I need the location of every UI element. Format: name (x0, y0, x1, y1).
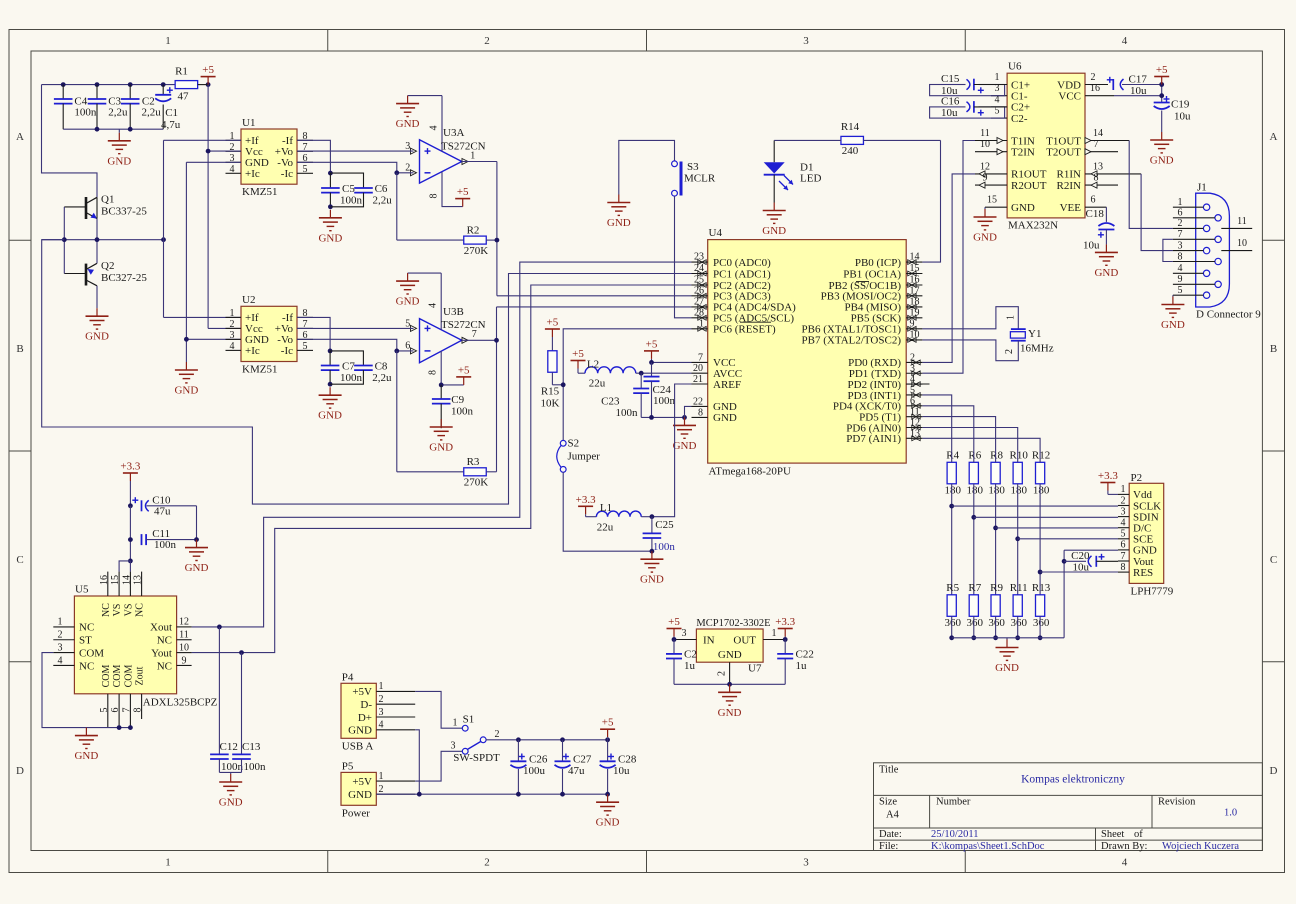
svg-text:360: 360 (988, 617, 1005, 629)
svg-text:GND: GND (396, 296, 420, 308)
IC U5 ADXL325BCPZ (53, 572, 217, 728)
svg-text:1: 1 (230, 308, 235, 319)
svg-text:PC6 (RESET): PC6 (RESET) (713, 324, 776, 336)
ground GND C25 (640, 551, 664, 586)
svg-text:+5V: +5V (352, 686, 372, 698)
wire bases to PC1 (42, 240, 692, 504)
wire R1IN to J1 (1141, 174, 1173, 251)
svg-text:7: 7 (698, 352, 703, 363)
svg-text:100n: 100n (616, 407, 639, 419)
capacitor C18 (1083, 207, 1114, 251)
wire XTAL1 to crystal (922, 307, 1018, 329)
wire C10 C11 to ground (194, 506, 199, 542)
ground GND C7 (318, 387, 342, 422)
svg-text:D Connector 9: D Connector 9 (1196, 309, 1261, 321)
svg-text:11: 11 (980, 128, 990, 139)
svg-text:T1OUT: T1OUT (1046, 135, 1081, 147)
svg-text:22: 22 (693, 396, 703, 407)
ground GND ATmega (673, 417, 697, 452)
wire T1IN to PD1 (922, 141, 975, 374)
wire PD4 to R6 (922, 406, 973, 452)
power +5 R15 (545, 317, 560, 338)
svg-text:10u: 10u (613, 765, 630, 777)
svg-text:+3.3: +3.3 (775, 616, 795, 628)
capacitor C25 (641, 514, 675, 553)
svg-text:3: 3 (58, 642, 63, 653)
wire S3 to PC5 (675, 196, 692, 318)
svg-text:L2: L2 (587, 359, 599, 371)
svg-text:15: 15 (987, 195, 997, 206)
svg-text:1: 1 (165, 35, 171, 47)
svg-text:3: 3 (1178, 240, 1183, 251)
svg-text:U1: U1 (242, 117, 255, 129)
svg-text:8: 8 (1121, 562, 1126, 573)
svg-text:C6: C6 (375, 183, 388, 195)
svg-text:-Ic: -Ic (281, 168, 293, 180)
svg-text:2: 2 (495, 729, 500, 740)
svg-text:8: 8 (1094, 173, 1099, 184)
resistor R7 360 (967, 582, 984, 629)
svg-text:23: 23 (694, 252, 704, 263)
wire R10 node (1015, 452, 1020, 595)
wire R9 to ground rail (993, 616, 998, 640)
wire tap D/C (996, 527, 1118, 529)
svg-text:U7: U7 (748, 663, 762, 675)
capacitor C24 (644, 362, 676, 417)
svg-text:C15: C15 (941, 73, 960, 85)
wire U7 ground rail (674, 682, 785, 687)
diode D1 LED (764, 140, 822, 202)
ground GND C9 (429, 419, 453, 454)
op-amp U3A TS272CN (405, 96, 485, 207)
svg-text:GND: GND (973, 232, 997, 244)
power +3.3 U5 (120, 461, 140, 482)
svg-text:4: 4 (1178, 263, 1183, 274)
svg-text:R1IN: R1IN (1057, 169, 1082, 181)
svg-text:5: 5 (1178, 285, 1183, 296)
svg-text:GND: GND (174, 385, 198, 397)
svg-text:PB1 (OC1A): PB1 (OC1A) (843, 268, 901, 280)
svg-text:J1: J1 (1197, 182, 1207, 194)
transistor Q1 BC337-25 (64, 194, 147, 220)
capacitor C19 (1154, 96, 1191, 132)
svg-text:1: 1 (995, 72, 1000, 83)
svg-text:Kompas elektroniczny: Kompas elektroniczny (1021, 774, 1125, 786)
connector J1 D Connector 9 (1173, 182, 1261, 321)
svg-text:6: 6 (405, 340, 410, 351)
svg-text:C2+: C2+ (1011, 102, 1030, 114)
svg-text:GND: GND (718, 707, 742, 719)
power +5 L2 (571, 348, 586, 369)
svg-text:R14: R14 (841, 121, 860, 133)
svg-text:KMZ51: KMZ51 (242, 364, 277, 376)
svg-text:+5: +5 (602, 717, 614, 729)
svg-text:5: 5 (910, 385, 915, 396)
ground GND C5 (318, 210, 342, 245)
svg-text:GND: GND (1161, 319, 1185, 331)
svg-text:R1: R1 (175, 66, 188, 78)
wire T1OUT to J1 (1129, 141, 1173, 229)
power +3.3 U7 (775, 616, 795, 642)
power +5 U3A (455, 186, 470, 207)
wire U5 Yout to PC2 (192, 285, 692, 655)
ground GND filter (107, 129, 131, 167)
switch S3 MCLR (672, 161, 716, 196)
svg-text:1: 1 (772, 628, 777, 639)
wire J1 pins 7 8 tie (1163, 239, 1173, 261)
svg-text:2: 2 (1004, 349, 1015, 354)
inductor L2 (578, 359, 636, 390)
svg-text:26: 26 (694, 285, 704, 296)
svg-text:+3.3: +3.3 (120, 461, 140, 473)
wire +5 vertical to U1 U2 Vcc (206, 85, 241, 329)
svg-text:8: 8 (429, 194, 440, 199)
wire U3A output to PC3 (462, 162, 692, 296)
svg-text:R1OUT: R1OUT (1011, 169, 1047, 181)
wire U1 +Vo to U3A +in (297, 150, 414, 152)
svg-text:8: 8 (428, 370, 439, 375)
svg-text:9: 9 (910, 318, 915, 329)
svg-text:GND: GND (718, 649, 742, 661)
svg-text:GND: GND (85, 331, 109, 343)
svg-text:100n: 100n (340, 195, 363, 207)
svg-text:C7: C7 (342, 361, 355, 373)
svg-text:4: 4 (429, 126, 440, 131)
svg-text:5: 5 (1121, 529, 1126, 540)
resistor R14 (841, 121, 864, 157)
svg-text:T2IN: T2IN (1011, 147, 1035, 159)
power +5 VCC (644, 338, 659, 359)
svg-text:10K: 10K (541, 398, 560, 410)
svg-text:5: 5 (99, 708, 110, 713)
svg-text:LED: LED (800, 173, 821, 185)
svg-text:IN: IN (703, 634, 715, 646)
svg-text:MCLR: MCLR (684, 173, 716, 185)
svg-text:COM: COM (101, 665, 112, 688)
wire PD5 to R8 (922, 417, 995, 452)
IC U1 KMZ51 (226, 117, 314, 198)
svg-text:2: 2 (484, 35, 490, 47)
svg-text:C2: C2 (684, 649, 697, 661)
crystal Y1 16MHz (1004, 315, 1054, 355)
svg-text:+5V: +5V (352, 776, 372, 788)
svg-text:NC: NC (157, 635, 172, 647)
svg-text:GND: GND (396, 118, 420, 130)
svg-text:5: 5 (303, 341, 308, 352)
svg-text:16: 16 (910, 275, 920, 286)
ground GND U6 (973, 207, 997, 243)
svg-text:A: A (1270, 131, 1278, 143)
svg-text:C: C (1270, 554, 1277, 566)
svg-text:7: 7 (1178, 229, 1183, 240)
svg-text:GND: GND (673, 440, 697, 452)
svg-text:TS272CN: TS272CN (441, 319, 486, 331)
svg-text:+Ic: +Ic (245, 345, 260, 357)
wire U1 pin1 to U2 pin1 (164, 140, 242, 317)
wire DAC ground rail (952, 550, 1118, 638)
wire U3B pin8 to +5 (439, 383, 464, 388)
svg-text:R10: R10 (1010, 450, 1029, 462)
svg-text:10: 10 (980, 139, 990, 150)
svg-text:10u: 10u (1073, 561, 1090, 573)
svg-text:1u: 1u (684, 660, 696, 672)
wire R11 to ground rail (1015, 616, 1020, 640)
svg-text:+5: +5 (646, 338, 658, 350)
capacitor C16 (930, 95, 1008, 119)
svg-text:GND: GND (995, 662, 1019, 674)
svg-text:180: 180 (967, 485, 984, 497)
capacitor C26 (510, 740, 547, 794)
svg-text:9: 9 (1178, 274, 1183, 285)
svg-text:R6: R6 (968, 450, 981, 462)
svg-text:+5: +5 (1156, 64, 1168, 76)
svg-text:P4: P4 (342, 672, 354, 684)
svg-text:11: 11 (179, 630, 189, 641)
svg-text:Y1: Y1 (1028, 328, 1041, 340)
svg-text:D+: D+ (358, 712, 372, 724)
power +3.3 L1 (576, 494, 596, 515)
resistor R15 (541, 337, 560, 410)
resistor R9 360 (988, 582, 1005, 629)
svg-text:P2: P2 (1131, 472, 1143, 484)
svg-text:14: 14 (910, 252, 920, 263)
resistor R3 (464, 456, 489, 489)
svg-text:B: B (1270, 343, 1277, 355)
svg-text:C1+: C1+ (1011, 79, 1030, 91)
wire U1 -Vo to U3A -in (297, 162, 414, 175)
svg-text:6: 6 (1178, 208, 1183, 219)
svg-text:5: 5 (405, 318, 410, 329)
svg-text:4: 4 (230, 341, 235, 352)
svg-text:R7: R7 (968, 582, 981, 594)
svg-text:2: 2 (717, 671, 728, 676)
svg-text:1: 1 (379, 771, 384, 782)
svg-text:360: 360 (1033, 617, 1050, 629)
connector P5 Power (341, 761, 415, 820)
svg-text:6: 6 (1121, 540, 1126, 551)
wire PD6 to R10 (922, 428, 1017, 452)
svg-text:1.0: 1.0 (1224, 808, 1237, 819)
svg-text:13: 13 (133, 575, 144, 585)
svg-text:180: 180 (1033, 485, 1050, 497)
svg-text:14: 14 (1093, 128, 1103, 139)
capacitor C5 (321, 173, 362, 209)
svg-text:NC: NC (79, 660, 94, 672)
wire U2 +Vo to U3B +in (297, 327, 414, 329)
wire S2 to ground rail (563, 472, 652, 551)
svg-text:Size: Size (879, 797, 897, 808)
svg-text:PB0 (ICP): PB0 (ICP) (855, 257, 901, 269)
svg-text:AREF: AREF (713, 379, 741, 391)
svg-text:A: A (16, 131, 24, 143)
svg-text:2: 2 (230, 319, 235, 330)
svg-text:11: 11 (910, 407, 920, 418)
svg-text:C25: C25 (655, 519, 674, 531)
svg-text:R15: R15 (541, 386, 560, 398)
ground GND U3A supply (396, 96, 442, 131)
wire +5 top rail (42, 82, 211, 87)
svg-text:R5: R5 (946, 582, 959, 594)
svg-text:Revision: Revision (1158, 797, 1196, 808)
svg-text:10u: 10u (941, 107, 958, 119)
svg-text:C12: C12 (220, 741, 238, 753)
wire crystal to XTAL2 (922, 340, 1018, 361)
capacitor C10 (132, 495, 196, 518)
svg-text:2: 2 (58, 630, 63, 641)
svg-text:100n: 100n (154, 539, 177, 551)
wire cap bottom rail (63, 127, 163, 132)
IC U4 ATmega168-20PU (692, 227, 930, 478)
svg-text:6: 6 (1091, 195, 1096, 206)
switch S1 SW-SPDT (451, 714, 501, 765)
svg-text:+5: +5 (668, 616, 680, 628)
resistor R13 360 (1032, 582, 1051, 629)
svg-text:7: 7 (121, 708, 132, 713)
svg-text:of: of (1134, 829, 1143, 840)
title block (874, 763, 1263, 852)
wire R13 to ground rail (1038, 616, 1043, 640)
svg-text:R12: R12 (1032, 450, 1050, 462)
capacitor C17 (1107, 74, 1148, 98)
capacitor C21 (666, 640, 697, 685)
svg-text:C9: C9 (451, 394, 464, 406)
svg-text:3: 3 (803, 857, 809, 869)
resistor R6 180 (967, 450, 984, 497)
ground GND power (596, 794, 620, 829)
svg-text:C23: C23 (601, 396, 620, 408)
wire U1 U2 GND net (184, 162, 241, 362)
svg-text:1: 1 (470, 150, 475, 161)
wire Q1 Q2 base rail (63, 207, 65, 274)
svg-text:GND: GND (607, 217, 631, 229)
svg-text:Title: Title (879, 765, 899, 776)
svg-text:U3A: U3A (443, 127, 464, 139)
svg-text:A4: A4 (886, 810, 900, 821)
svg-text:21: 21 (693, 374, 703, 385)
svg-text:R11: R11 (1010, 582, 1028, 594)
svg-text:100n: 100n (451, 406, 474, 418)
svg-text:2: 2 (910, 352, 915, 363)
connector P2 LPH7779 (1118, 472, 1174, 598)
svg-text:U5: U5 (75, 584, 89, 596)
svg-text:4: 4 (230, 164, 235, 175)
svg-text:Number: Number (936, 797, 971, 808)
ground GND U7 (718, 684, 742, 719)
svg-text:GND: GND (429, 442, 453, 454)
capacitor C6 (330, 173, 392, 207)
svg-text:180: 180 (988, 485, 1005, 497)
svg-text:3: 3 (451, 741, 456, 752)
svg-text:2: 2 (1091, 72, 1096, 83)
svg-text:+Ic: +Ic (245, 168, 260, 180)
ground GND C11 (185, 540, 209, 575)
transistor Q2 BC327-25 (64, 260, 147, 286)
wire RESET net (552, 329, 691, 441)
wire P5 +5V to S1 pin3 (415, 751, 462, 781)
svg-text:GND: GND (185, 562, 209, 574)
capacitor C1 (155, 85, 181, 131)
power +5 U6 (1154, 64, 1169, 85)
svg-text:GND: GND (318, 232, 342, 244)
capacitor C4 (54, 85, 97, 130)
svg-text:C8: C8 (375, 361, 388, 373)
svg-text:1: 1 (1178, 197, 1183, 208)
svg-text:TS272CN: TS272CN (441, 141, 486, 153)
svg-text:COM: COM (123, 665, 134, 688)
svg-text:PB7 (XTAL2/TOSC2): PB7 (XTAL2/TOSC2) (802, 335, 902, 347)
wire R12 node (1038, 452, 1043, 595)
wire AREF net (652, 384, 692, 517)
svg-text:3: 3 (379, 707, 384, 718)
capacitor C28 (600, 740, 637, 794)
svg-text:T1IN: T1IN (1011, 135, 1035, 147)
wire LED to R14 to PB0 (774, 140, 940, 262)
svg-text:4: 4 (428, 303, 439, 308)
svg-text:C26: C26 (529, 754, 548, 766)
svg-text:COM: COM (79, 647, 104, 659)
wire tap SDIN (974, 516, 1118, 518)
wire R4 node (949, 452, 954, 595)
svg-text:Drawn By:: Drawn By: (1101, 841, 1147, 852)
svg-text:7: 7 (472, 329, 477, 340)
svg-text:+3.3: +3.3 (1098, 470, 1118, 482)
svg-text:1: 1 (699, 318, 704, 329)
svg-text:VS: VS (112, 604, 123, 617)
svg-text:100n: 100n (221, 761, 244, 773)
capacitor C3 (88, 85, 128, 130)
svg-text:6: 6 (910, 396, 915, 407)
svg-text:360: 360 (967, 617, 984, 629)
svg-text:File:: File: (879, 841, 898, 852)
power +5 at R1 (201, 64, 216, 85)
svg-text:3: 3 (1121, 506, 1126, 517)
svg-text:4: 4 (58, 655, 63, 666)
wire P4 GND down (415, 730, 419, 794)
connector P4 USB A (341, 672, 415, 753)
svg-text:R2IN: R2IN (1057, 180, 1082, 192)
power +5 rail (600, 717, 615, 740)
svg-text:R4: R4 (946, 450, 959, 462)
wire S1 to +5 rail (486, 737, 610, 742)
capacitor C2 (121, 85, 161, 130)
svg-text:2: 2 (379, 784, 384, 795)
svg-text:19: 19 (910, 307, 920, 318)
svg-text:NC: NC (79, 622, 94, 634)
ground GND C19 (1150, 132, 1174, 167)
svg-text:R13: R13 (1032, 582, 1051, 594)
wire AVCC row (636, 371, 692, 376)
svg-text:4: 4 (379, 720, 384, 731)
svg-text:GND: GND (762, 225, 786, 237)
jumper S2 (557, 438, 600, 473)
svg-text:PC0 (ADC0): PC0 (ADC0) (713, 257, 771, 269)
svg-text:2,2u: 2,2u (108, 107, 128, 119)
ground GND Q2 (85, 308, 109, 343)
svg-text:NC: NC (101, 603, 112, 617)
svg-text:Zout: Zout (135, 666, 146, 685)
svg-text:20: 20 (693, 363, 703, 374)
inductor L1 (586, 502, 642, 534)
svg-text:16MHz: 16MHz (1020, 343, 1054, 355)
wire U3A feedback to R2 (397, 173, 464, 240)
svg-text:C16: C16 (941, 95, 960, 107)
wire R8 node (993, 452, 998, 595)
resistor R2 (464, 224, 489, 257)
wire U3B feedback to R3 (397, 351, 464, 472)
svg-text:GND: GND (107, 155, 131, 167)
svg-text:MCP1702-3302E: MCP1702-3302E (696, 618, 770, 629)
svg-text:NC: NC (157, 660, 172, 672)
